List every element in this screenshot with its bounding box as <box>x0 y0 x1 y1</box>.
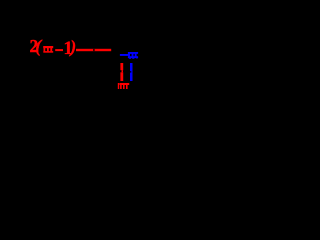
wire blue arrow shaft <box>120 54 130 56</box>
wire break dark spot <box>93 49 95 51</box>
node label bottom red stroke <box>118 83 119 89</box>
svg-text:): ) <box>68 37 76 57</box>
node label m blue <box>128 52 138 59</box>
wire vertical blue current arrow <box>130 63 133 81</box>
label 2(m-1) letter m <box>43 46 53 53</box>
wire vertical red current arrow <box>120 63 123 81</box>
label 2(m-1) minus sign <box>55 49 63 51</box>
background <box>0 0 185 89</box>
node label bottom red m <box>120 83 130 89</box>
wire horizontal red line <box>76 49 111 51</box>
